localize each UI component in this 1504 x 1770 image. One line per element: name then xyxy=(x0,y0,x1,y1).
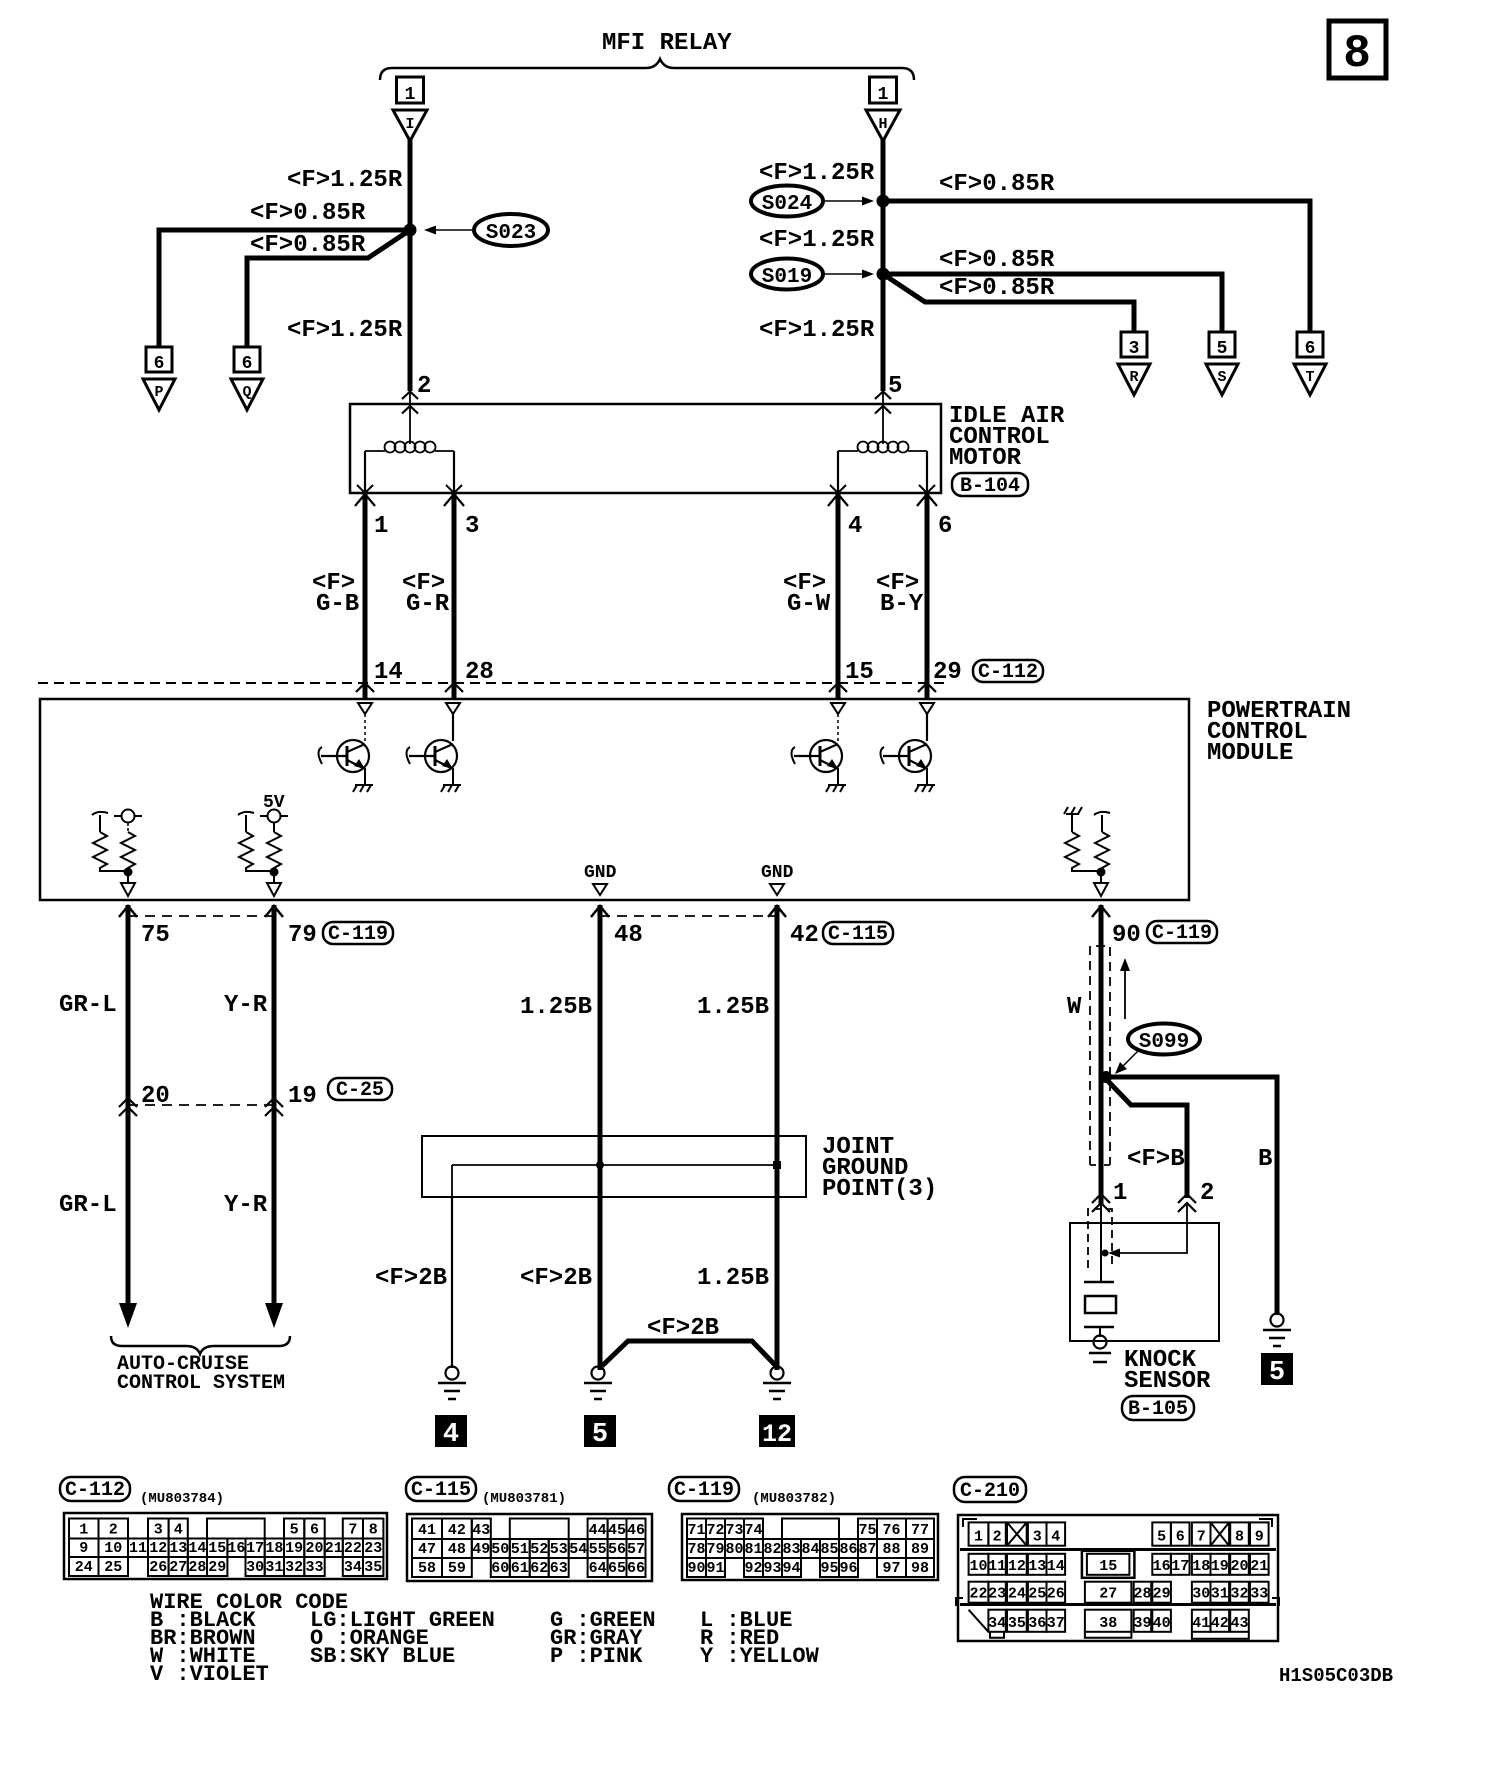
svg-text:3: 3 xyxy=(1129,339,1140,359)
svg-text:37: 37 xyxy=(1047,1615,1065,1632)
svg-text:19: 19 xyxy=(288,1083,317,1110)
svg-text:42: 42 xyxy=(448,1522,466,1539)
svg-text:95: 95 xyxy=(820,1560,838,1577)
svg-text:51: 51 xyxy=(511,1541,529,1558)
connector code B-105 xyxy=(1122,1396,1194,1421)
svg-text:12: 12 xyxy=(149,1540,167,1557)
knock sensor box xyxy=(1070,1223,1219,1341)
wire from S019 to terminal R xyxy=(883,274,1134,332)
splice label S024 xyxy=(751,186,874,217)
label (F)0.85R xyxy=(939,247,1055,274)
svg-text:34: 34 xyxy=(344,1559,362,1576)
label Y-R xyxy=(224,1192,268,1219)
wire pin 79 Y-R to auto-cruise xyxy=(265,905,283,1328)
label (F) G-B xyxy=(312,570,359,618)
svg-text:C-115: C-115 xyxy=(828,923,888,946)
brace over MFI relay terminals xyxy=(380,59,914,80)
svg-text:8: 8 xyxy=(1235,1529,1244,1546)
svg-text:<F>1.25R: <F>1.25R xyxy=(759,317,875,344)
connector part no MU803784 xyxy=(140,1491,224,1507)
svg-text:6: 6 xyxy=(1305,339,1316,359)
svg-text:52: 52 xyxy=(530,1541,548,1558)
terminal triangle Q xyxy=(231,379,263,410)
svg-text:48: 48 xyxy=(614,922,643,949)
pin number 28 xyxy=(465,659,494,686)
svg-text:1.25B: 1.25B xyxy=(697,994,769,1021)
svg-text:I: I xyxy=(405,116,414,133)
svg-text:3: 3 xyxy=(154,1522,163,1539)
svg-text:<F>1.25R: <F>1.25R xyxy=(759,160,875,187)
SECTION-TABLES xyxy=(60,1477,1393,1687)
svg-text:(MU803784): (MU803784) xyxy=(140,1491,224,1507)
svg-text:78: 78 xyxy=(687,1541,705,1558)
svg-text:94: 94 xyxy=(782,1560,800,1577)
svg-text:88: 88 xyxy=(882,1541,900,1558)
pin number 48 xyxy=(614,922,643,949)
svg-text:S023: S023 xyxy=(486,222,536,245)
svg-text:R: R xyxy=(1129,369,1138,386)
svg-text:1: 1 xyxy=(974,1529,983,1546)
pull-up resistor pair at pin 75 xyxy=(92,810,142,897)
label (F)2B xyxy=(520,1265,592,1292)
label MFI RELAY xyxy=(602,30,732,57)
svg-text:C-112: C-112 xyxy=(978,661,1038,684)
svg-text:23: 23 xyxy=(988,1586,1006,1603)
svg-text:74: 74 xyxy=(744,1522,762,1539)
svg-text:Y-R: Y-R xyxy=(224,992,268,1019)
svg-text:86: 86 xyxy=(839,1541,857,1558)
terminal triangle T xyxy=(1294,364,1326,395)
connector code C-115 xyxy=(823,922,893,946)
pin number 29 xyxy=(933,659,962,686)
coil 2 of IAC motor xyxy=(838,391,927,453)
svg-text:8: 8 xyxy=(1343,28,1371,80)
piezo element bottom plate xyxy=(1084,1327,1114,1337)
brace auto-cruise xyxy=(111,1336,290,1354)
svg-text:45: 45 xyxy=(608,1522,626,1539)
svg-text:4: 4 xyxy=(174,1522,183,1539)
internal pin triangle at 15 xyxy=(831,703,845,714)
svg-text:3: 3 xyxy=(1033,1529,1042,1546)
label KNOCK SENSOR xyxy=(1124,1347,1211,1395)
label 1.25B xyxy=(520,994,592,1021)
svg-text:18: 18 xyxy=(1192,1558,1210,1575)
connector box 6 terminal Q xyxy=(234,347,260,374)
svg-text:SENSOR: SENSOR xyxy=(1124,1368,1211,1395)
coil 1 of IAC motor xyxy=(365,391,454,453)
svg-text:G-B: G-B xyxy=(316,591,359,618)
svg-text:32: 32 xyxy=(285,1559,303,1576)
svg-text:(MU803782): (MU803782) xyxy=(752,1491,836,1507)
svg-text:<F>2B: <F>2B xyxy=(647,1315,719,1342)
svg-text:90: 90 xyxy=(687,1560,705,1577)
label (F)1.25R xyxy=(759,160,875,187)
svg-text:B: B xyxy=(1258,1146,1272,1173)
connector C-112 dashed line xyxy=(38,682,950,684)
svg-text:MFI RELAY: MFI RELAY xyxy=(602,30,732,57)
svg-text:75: 75 xyxy=(858,1522,876,1539)
wire IAC pin 4 to PCM pin 15 xyxy=(828,493,848,699)
label (F)1.25R xyxy=(287,167,403,194)
pin number 42 xyxy=(790,922,819,949)
pin number 1 xyxy=(1113,1180,1127,1207)
ground ref box 4 xyxy=(435,1415,467,1450)
svg-text:49: 49 xyxy=(472,1541,490,1558)
ground chassis Q4 xyxy=(915,785,935,792)
svg-text:61: 61 xyxy=(511,1560,529,1577)
wire pin 75 GR-L to auto-cruise xyxy=(119,905,137,1328)
wire MFI relay pin H down to IAC pin 5 xyxy=(881,140,886,391)
svg-text:11: 11 xyxy=(129,1540,147,1557)
wire branch P from splice S023 xyxy=(159,230,410,347)
svg-text:25: 25 xyxy=(1028,1586,1046,1603)
svg-text:42: 42 xyxy=(790,922,819,949)
svg-text:14: 14 xyxy=(188,1540,206,1557)
svg-text:75: 75 xyxy=(141,922,170,949)
label 1.25B xyxy=(697,994,769,1021)
svg-text:72: 72 xyxy=(706,1522,724,1539)
ground symbol knock sensor xyxy=(1089,1336,1111,1363)
svg-text:10: 10 xyxy=(969,1558,987,1575)
svg-text:15: 15 xyxy=(208,1540,226,1557)
svg-text:43: 43 xyxy=(1230,1615,1248,1632)
svg-text:GND: GND xyxy=(761,863,794,883)
svg-text:<F>2B: <F>2B xyxy=(375,1265,447,1292)
svg-text:11: 11 xyxy=(988,1558,1006,1575)
connector box 6 terminal P xyxy=(146,347,172,374)
powertrain control module box xyxy=(40,699,1189,900)
transistor Q4 (pin 29 driver) xyxy=(881,714,932,785)
internal pin triangle at 28 xyxy=(446,703,460,714)
connector label C-115 xyxy=(406,1477,476,1502)
svg-text:<F>2B: <F>2B xyxy=(520,1265,592,1292)
svg-text:25: 25 xyxy=(104,1559,122,1576)
svg-text:4: 4 xyxy=(1051,1529,1060,1546)
svg-text:B-104: B-104 xyxy=(960,475,1020,498)
pin number 20 xyxy=(141,1083,170,1110)
svg-text:2: 2 xyxy=(993,1529,1002,1546)
svg-text:G-W: G-W xyxy=(787,591,831,618)
label GND at pin 48 xyxy=(584,863,617,895)
svg-text:58: 58 xyxy=(418,1560,436,1577)
svg-text:4: 4 xyxy=(848,513,862,540)
SECTION-KNOCK xyxy=(1067,905,1293,1421)
ground symbol B wire xyxy=(1263,1314,1291,1347)
connector code B-104 xyxy=(952,473,1028,498)
pin 42 arrow xyxy=(768,906,786,917)
splice node S023 junction dot xyxy=(404,224,417,237)
svg-text:36: 36 xyxy=(1028,1615,1046,1632)
transistor Q2 (pin 28 driver) xyxy=(407,714,458,785)
svg-text:18: 18 xyxy=(265,1540,283,1557)
label W xyxy=(1067,994,1082,1021)
svg-text:POINT(3): POINT(3) xyxy=(822,1176,937,1203)
connector box 6 terminal T xyxy=(1297,332,1323,359)
svg-text:2: 2 xyxy=(417,373,431,400)
pin number 1 xyxy=(374,513,388,540)
wire from S019 to terminal S xyxy=(883,274,1222,332)
pin 48 arrow xyxy=(591,906,609,917)
svg-text:85: 85 xyxy=(820,1541,838,1558)
svg-text:MODULE: MODULE xyxy=(1207,740,1293,767)
svg-text:55: 55 xyxy=(589,1541,607,1558)
svg-text:P :PINK: P :PINK xyxy=(550,1644,643,1669)
svg-text:MOTOR: MOTOR xyxy=(949,445,1022,472)
svg-text:16: 16 xyxy=(227,1540,245,1557)
svg-text:1.25B: 1.25B xyxy=(520,994,592,1021)
connector box 1 (right, terminal H) xyxy=(870,77,897,105)
svg-text:34: 34 xyxy=(988,1615,1006,1632)
ground chassis Q1 xyxy=(353,785,373,792)
arrow at pin 28 xyxy=(445,683,463,692)
connector C-25 dashed link 20-19 xyxy=(128,1104,274,1106)
svg-text:5: 5 xyxy=(888,373,902,400)
svg-text:29: 29 xyxy=(1153,1586,1171,1603)
label (F)1.25R xyxy=(287,317,403,344)
svg-text:98: 98 xyxy=(911,1560,929,1577)
svg-text:50: 50 xyxy=(491,1541,509,1558)
svg-text:41: 41 xyxy=(418,1522,436,1539)
svg-text:27: 27 xyxy=(1099,1586,1117,1603)
svg-text:66: 66 xyxy=(627,1560,645,1577)
svg-text:87: 87 xyxy=(858,1541,876,1558)
label Y-R xyxy=(224,992,268,1019)
connector part no MU803782 xyxy=(752,1491,836,1507)
junction dot at pin 48 wire xyxy=(596,1161,604,1169)
svg-text:19: 19 xyxy=(285,1540,303,1557)
svg-text:<F>1.25R: <F>1.25R xyxy=(759,227,875,254)
svg-text:20: 20 xyxy=(305,1540,323,1557)
svg-text:43: 43 xyxy=(472,1522,490,1539)
wire pin 48 1.25B to joint ground xyxy=(598,905,603,1370)
ground symbol 12 xyxy=(763,1367,791,1400)
svg-text:48: 48 xyxy=(448,1541,466,1558)
pin 75 arrow xyxy=(119,906,137,917)
label (F)0.85R xyxy=(250,200,366,227)
label (F)1.25R xyxy=(759,317,875,344)
svg-text:13: 13 xyxy=(169,1540,187,1557)
svg-text:H1S05C03DB: H1S05C03DB xyxy=(1279,1665,1393,1687)
splice node S024 junction dot xyxy=(877,195,890,208)
svg-text:15: 15 xyxy=(1099,1558,1117,1575)
svg-text:40: 40 xyxy=(1153,1615,1171,1632)
svg-text:<F>0.85R: <F>0.85R xyxy=(250,232,366,259)
label IDLE AIR CONTROL MOTOR xyxy=(949,403,1065,472)
svg-text:5: 5 xyxy=(1157,1529,1166,1546)
connector label C-210 xyxy=(954,1477,1026,1503)
svg-text:<F>0.85R: <F>0.85R xyxy=(939,275,1055,302)
svg-text:SB:SKY BLUE: SB:SKY BLUE xyxy=(310,1644,455,1669)
splice node S019 junction dot xyxy=(877,268,890,281)
svg-text:5: 5 xyxy=(1217,339,1228,359)
coil 1 left lead to pin 1 xyxy=(357,451,373,493)
svg-text:82: 82 xyxy=(763,1541,781,1558)
wire S099 to ground B xyxy=(1104,1077,1277,1315)
splice label S023 xyxy=(424,214,548,246)
pull-up resistor pair at pin 90 xyxy=(1064,807,1110,896)
svg-text:60: 60 xyxy=(491,1560,509,1577)
svg-text:16: 16 xyxy=(1153,1558,1171,1575)
svg-text:56: 56 xyxy=(608,1541,626,1558)
svg-text:81: 81 xyxy=(744,1541,762,1558)
svg-text:30: 30 xyxy=(1192,1586,1210,1603)
label (F) G-W xyxy=(783,570,831,618)
coil 1 right lead to pin 3 xyxy=(446,451,462,493)
svg-text:79: 79 xyxy=(706,1541,724,1558)
arrow at pin 29 xyxy=(918,683,936,692)
connector box 5 terminal S xyxy=(1209,332,1235,359)
svg-text:26: 26 xyxy=(149,1559,167,1576)
terminal triangle R xyxy=(1118,364,1150,395)
svg-text:Y :YELLOW: Y :YELLOW xyxy=(700,1644,820,1669)
label (F)0.85R xyxy=(939,171,1055,198)
svg-text:73: 73 xyxy=(725,1522,743,1539)
SECTION-IAC xyxy=(38,391,1065,699)
label (F) B-Y xyxy=(876,570,924,618)
svg-text:89: 89 xyxy=(911,1541,929,1558)
coil 2 left lead to pin 4 xyxy=(830,451,846,493)
wire from S024 to terminal T xyxy=(883,201,1310,332)
wire joint ground to ground 4 xyxy=(451,1165,453,1368)
svg-text:1: 1 xyxy=(405,85,416,105)
svg-text:21: 21 xyxy=(325,1540,343,1557)
svg-text:28: 28 xyxy=(465,659,494,686)
wire pin 42 1.25B to joint ground xyxy=(775,905,780,1370)
wire S099 to knock sensor pin 2 xyxy=(1104,1077,1187,1198)
svg-text:77: 77 xyxy=(911,1522,929,1539)
label (F)1.25R xyxy=(759,227,875,254)
svg-text:53: 53 xyxy=(550,1541,568,1558)
svg-text:C-112: C-112 xyxy=(65,1479,125,1502)
svg-text:32: 32 xyxy=(1230,1586,1248,1603)
svg-text:79: 79 xyxy=(288,922,317,949)
svg-text:20: 20 xyxy=(1230,1558,1248,1575)
pin 2 arrow xyxy=(1178,1194,1196,1212)
wire MFI relay pin I down to IAC pin 2 xyxy=(408,140,413,391)
terminal triangle I xyxy=(393,110,427,141)
svg-text:GR-L: GR-L xyxy=(59,1192,117,1219)
direction arrow up xyxy=(1120,958,1130,1019)
svg-text:6: 6 xyxy=(154,354,165,374)
svg-text:7: 7 xyxy=(348,1522,357,1539)
svg-text:<F>0.85R: <F>0.85R xyxy=(939,247,1055,274)
piezo element top plate xyxy=(1084,1281,1114,1284)
svg-text:1.25B: 1.25B xyxy=(697,1265,769,1292)
svg-text:1: 1 xyxy=(79,1522,88,1539)
svg-text:63: 63 xyxy=(550,1560,568,1577)
pin number 14 xyxy=(374,659,403,686)
drawing number H1S05C03DB xyxy=(1279,1665,1393,1687)
svg-text:65: 65 xyxy=(608,1560,626,1577)
svg-text:93: 93 xyxy=(763,1560,781,1577)
pin 20 arrow xyxy=(119,1098,137,1116)
svg-text:4: 4 xyxy=(443,1420,459,1450)
svg-text:9: 9 xyxy=(79,1540,88,1557)
wire branch Q from splice S023 xyxy=(247,230,410,347)
connector box 3 terminal R xyxy=(1121,332,1147,359)
internal pin triangle at 29 xyxy=(920,703,934,714)
wire IAC pin 6 to PCM pin 29 xyxy=(917,493,937,699)
arrow at pin 14 xyxy=(356,683,374,692)
svg-text:91: 91 xyxy=(706,1560,724,1577)
svg-text:33: 33 xyxy=(305,1559,323,1576)
label B xyxy=(1258,1146,1272,1173)
svg-text:C-119: C-119 xyxy=(674,1479,734,1502)
pin number 2 xyxy=(417,373,431,400)
wire ground 5 branch to ground 12 xyxy=(602,1341,776,1366)
shield dashed lower xyxy=(1088,1209,1112,1268)
label POWERTRAIN CONTROL MODULE xyxy=(1207,698,1351,767)
connector label C-119 xyxy=(669,1477,739,1502)
svg-text:96: 96 xyxy=(839,1560,857,1577)
connector table C-115 xyxy=(407,1514,652,1581)
svg-text:59: 59 xyxy=(448,1560,466,1577)
svg-text:76: 76 xyxy=(882,1522,900,1539)
svg-text:H: H xyxy=(878,116,887,133)
pin number 79 xyxy=(288,922,317,949)
svg-text:31: 31 xyxy=(265,1559,283,1576)
pin number 15 xyxy=(845,659,874,686)
svg-text:62: 62 xyxy=(530,1560,548,1577)
svg-text:C-210: C-210 xyxy=(960,1480,1020,1503)
pin number 5 xyxy=(888,373,902,400)
splice node S099 junction dot xyxy=(1100,1071,1112,1083)
svg-text:GND: GND xyxy=(584,863,617,883)
pull-up resistor pair at pin 79 with 5V xyxy=(238,793,288,896)
svg-text:14: 14 xyxy=(374,659,403,686)
pin number 4 xyxy=(848,513,862,540)
label AUTO-CRUISE CONTROL SYSTEM xyxy=(117,1353,285,1395)
wire IAC pin 3 to PCM pin 28 xyxy=(444,493,464,699)
svg-text:21: 21 xyxy=(1250,1558,1268,1575)
label GR-L xyxy=(59,992,117,1019)
svg-text:41: 41 xyxy=(1192,1615,1210,1632)
svg-text:<F>1.25R: <F>1.25R xyxy=(287,317,403,344)
svg-text:33: 33 xyxy=(1250,1586,1268,1603)
label (F)2B xyxy=(375,1265,447,1292)
svg-text:84: 84 xyxy=(801,1541,819,1558)
svg-text:Q: Q xyxy=(242,384,251,401)
terminal triangle P xyxy=(143,379,175,410)
label (F)0.85R xyxy=(250,232,366,259)
wire pin 1 into sensor xyxy=(1100,1205,1102,1282)
connector code C-119 xyxy=(1147,921,1217,945)
svg-text:S099: S099 xyxy=(1139,1031,1189,1054)
joint ground point box xyxy=(422,1136,806,1197)
pin number 2 xyxy=(1200,1180,1214,1207)
svg-text:12: 12 xyxy=(762,1420,792,1449)
connector table C-112 xyxy=(64,1513,387,1579)
connector box 1 (left, terminal I) xyxy=(397,77,424,105)
label (F)2B xyxy=(647,1315,719,1342)
svg-text:17: 17 xyxy=(1171,1558,1189,1575)
ground chassis Q3 xyxy=(826,785,846,792)
svg-text:24: 24 xyxy=(75,1559,93,1576)
svg-text:19: 19 xyxy=(1211,1558,1229,1575)
svg-text:83: 83 xyxy=(782,1541,800,1558)
connector label C-112 xyxy=(60,1477,130,1502)
coil 2 right lead to pin 6 xyxy=(919,451,935,493)
svg-text:<F>0.85R: <F>0.85R xyxy=(250,200,366,227)
svg-text:S024: S024 xyxy=(762,193,812,216)
svg-text:92: 92 xyxy=(744,1560,762,1577)
svg-text:17: 17 xyxy=(246,1540,264,1557)
svg-text:GR-L: GR-L xyxy=(59,992,117,1019)
internal pin triangle at 14 xyxy=(358,703,372,714)
svg-text:71: 71 xyxy=(687,1522,705,1539)
svg-text:1: 1 xyxy=(374,513,388,540)
svg-text:P: P xyxy=(154,384,163,401)
